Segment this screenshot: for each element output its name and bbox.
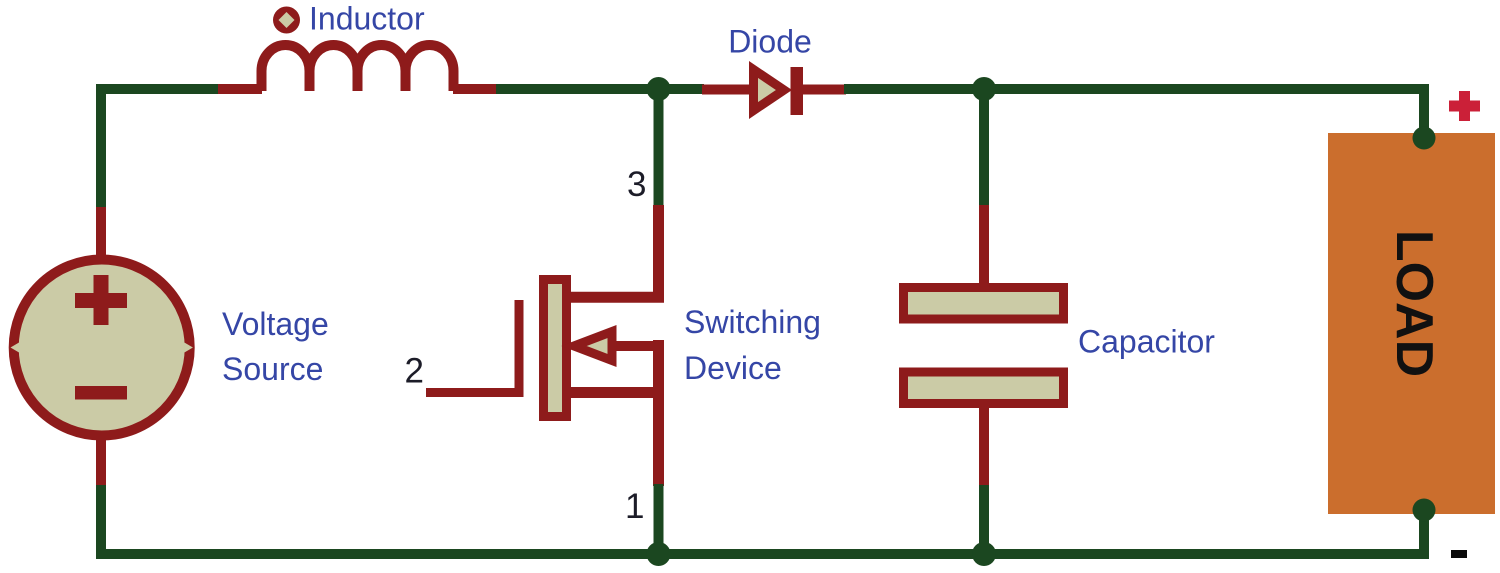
wire green node 3 upper [654, 89, 664, 207]
svg-text:Source: Source [222, 351, 323, 387]
wire red mosfet bulk-arrow lead [616, 341, 659, 351]
svg-text:LOAD: LOAD [1385, 230, 1443, 377]
node 1 junction dot bottom [647, 542, 671, 566]
wire top green diode to load corner [844, 89, 1424, 140]
svg-text:Voltage: Voltage [222, 306, 329, 342]
label pin 2 [405, 352, 424, 391]
wire red voltage source top lead [96, 207, 106, 256]
svg-text:1: 1 [625, 487, 644, 526]
wire red diode cathode lead [803, 85, 846, 95]
diode D [754, 67, 804, 115]
svg-text:2: 2 [405, 352, 424, 391]
label Switching Device [684, 304, 821, 386]
wire red lead inductor left [218, 84, 262, 94]
node load bottom dot [1413, 499, 1436, 522]
label Capacitor [1078, 324, 1215, 360]
label Voltage Source [222, 306, 329, 387]
capacitor C [904, 288, 1064, 404]
wire top green between inductor and node 3 [496, 84, 704, 94]
label Diode [728, 24, 812, 60]
minus terminal symbol [1451, 550, 1467, 558]
transistor Q (switching device) [544, 280, 613, 417]
wire red capacitor bottom lead [979, 407, 989, 487]
svg-text:3: 3 [627, 165, 646, 204]
wire top-left green (left vertical upper + top horizontal to inductor) [101, 89, 220, 212]
svg-text:Inductor: Inductor [309, 1, 425, 37]
wire red capacitor top lead [979, 205, 989, 284]
wire green node 1 lower [654, 484, 664, 554]
svg-text:Diode: Diode [728, 24, 812, 60]
plus terminal symbol [1449, 91, 1480, 121]
inductor L [262, 45, 454, 91]
junction dot capacitor top [972, 77, 996, 101]
wire red mosfet source lead [571, 340, 659, 486]
wire red lead inductor right [453, 84, 498, 94]
label Inductor [309, 1, 425, 37]
node 3 junction dot top [647, 77, 671, 101]
wire red mosfet drain [571, 205, 659, 297]
wire green capacitor bottom [979, 485, 989, 554]
svg-text:Switching: Switching [684, 304, 821, 340]
wire red mosfet gate [426, 300, 519, 393]
load resistor block [1328, 133, 1495, 514]
label pin 3 [627, 165, 646, 204]
wire red diode anode lead [702, 85, 750, 95]
wire bottom green middle [659, 508, 1425, 554]
inductor marker dot [273, 7, 300, 34]
wire bottom-left green [101, 485, 660, 554]
wire green capacitor top [979, 89, 989, 207]
wire red voltage source bottom lead [96, 438, 106, 487]
svg-text:Capacitor: Capacitor [1078, 324, 1215, 360]
svg-text:Device: Device [684, 350, 782, 386]
junction dot capacitor bottom [972, 542, 996, 566]
voltage source V [11, 260, 193, 436]
node load top dot [1413, 127, 1436, 150]
label pin 1 [625, 487, 644, 526]
label LOAD [1385, 230, 1443, 377]
